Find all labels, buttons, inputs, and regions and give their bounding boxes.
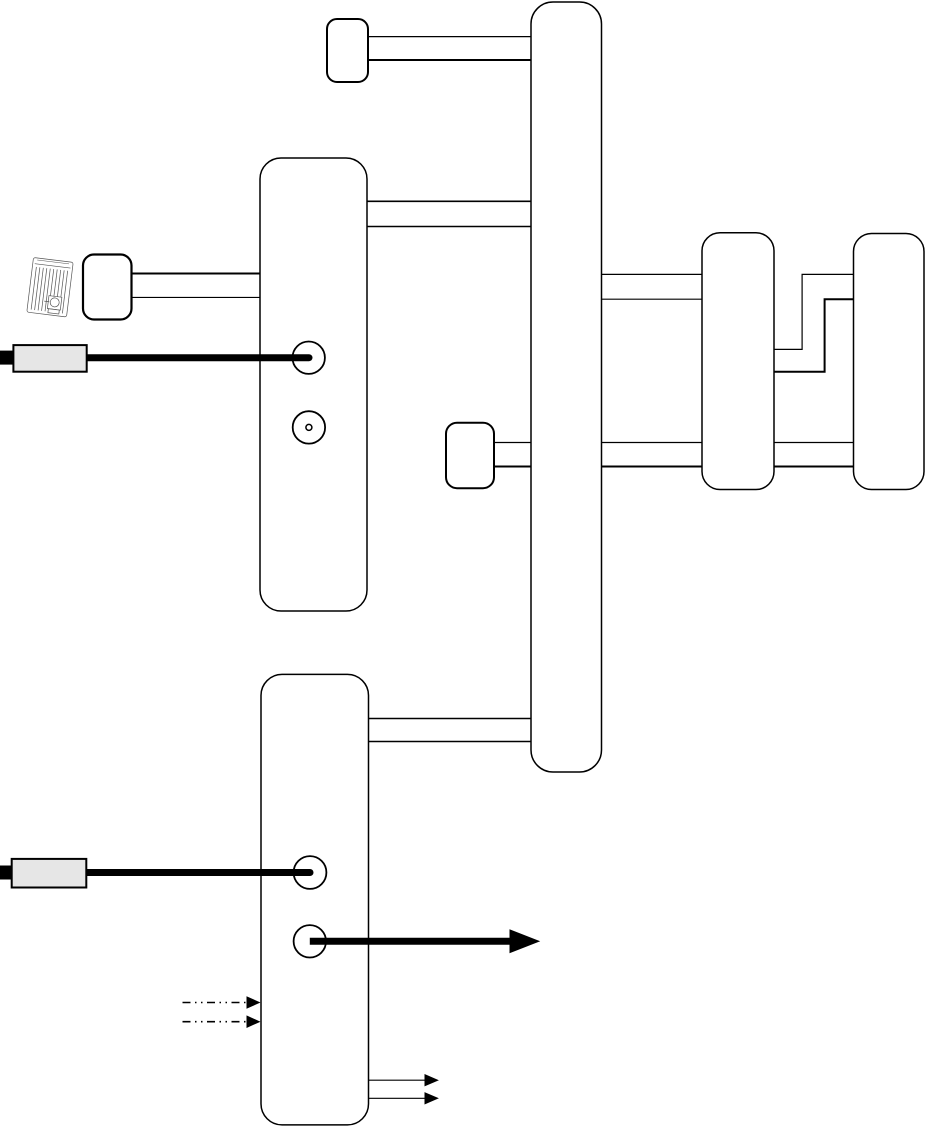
wire top-plug to tall-unit (thick) — [367, 59, 532, 61]
wire tall-unit to mid-right-unit lower — [601, 298, 703, 300]
cable 1 stub — [0, 351, 14, 365]
port circle 2 with pin (left mid unit) — [293, 411, 325, 443]
cable 1 line — [14, 354, 309, 361]
wire bottom-left-unit to tall-unit lower — [368, 741, 533, 743]
wire small-plug through units (thin) — [493, 442, 855, 444]
thin bottom arrow 1 shaft — [369, 1079, 429, 1081]
bottom left unit — [261, 674, 369, 1125]
right unit — [854, 234, 925, 490]
dash-dot arrow 1 shaft — [183, 1002, 251, 1004]
left middle unit — [260, 158, 367, 611]
thick output arrow shaft — [310, 938, 513, 945]
left plug — [83, 255, 132, 320]
cable 2 connector body — [12, 859, 87, 888]
wire top-plug to tall-unit (thin) — [367, 36, 532, 38]
top small plug — [327, 19, 368, 82]
wire bottom-left-unit to tall-unit upper — [368, 718, 533, 720]
cable 2 line — [12, 869, 310, 876]
port circle 1 (left mid unit) — [293, 342, 325, 374]
cable 2 stub — [0, 866, 12, 880]
port circle 4 (bottom left unit) — [294, 925, 326, 957]
dash-dot arrow 1 head — [247, 996, 261, 1009]
wire stepped thick mid-right-unit to right-unit — [774, 299, 855, 372]
wire small-plug through units (thick) — [493, 466, 855, 468]
wire left-plug to left-mid-unit (thin) — [131, 296, 261, 298]
thin bottom arrow 2 head — [425, 1092, 439, 1104]
wire tall-unit to mid-right-unit upper — [601, 273, 703, 275]
thin bottom arrow 1 head — [425, 1074, 439, 1086]
wire left-mid-unit to tall-unit upper — [367, 200, 532, 202]
speaker icon — [27, 258, 73, 317]
wire left-mid-unit to tall-unit lower — [367, 226, 532, 228]
dash-dot arrow 2 head — [247, 1015, 261, 1028]
tall central unit — [531, 2, 602, 772]
wire left-plug to left-mid-unit (thick) — [131, 273, 261, 275]
cable 1 connector body — [13, 345, 86, 372]
mid right unit — [702, 233, 774, 490]
port circle 3 (bottom left unit) — [294, 856, 327, 889]
thick output arrow head — [510, 929, 541, 953]
small middle plug — [446, 423, 494, 489]
wire stepped thin mid-right-unit to right-unit — [774, 274, 855, 349]
dash-dot arrow 2 shaft — [183, 1021, 251, 1023]
thin bottom arrow 2 shaft — [369, 1097, 429, 1099]
